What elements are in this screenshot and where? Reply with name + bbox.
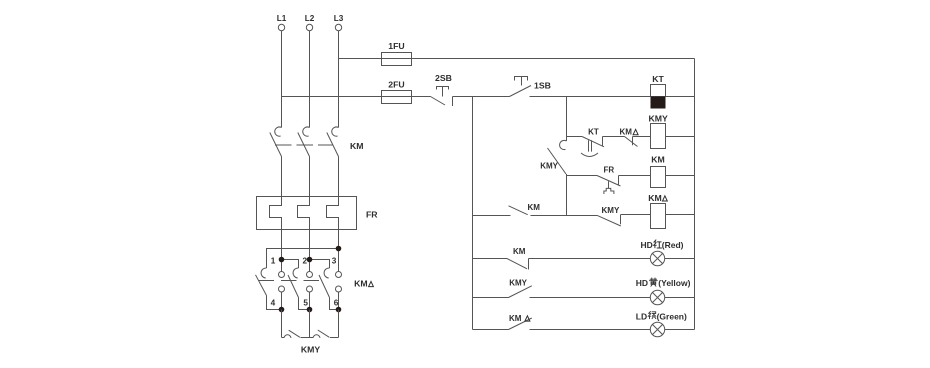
svg-text:LD: LD (636, 312, 647, 322)
svg-text:1: 1 (271, 256, 276, 265)
svg-text:1SB: 1SB (534, 81, 551, 91)
svg-text:(Yellow): (Yellow) (658, 278, 690, 288)
svg-text:KM: KM (651, 155, 665, 165)
svg-text:KT: KT (588, 128, 599, 137)
svg-text:3: 3 (332, 256, 337, 265)
svg-text:2FU: 2FU (388, 80, 404, 90)
svg-text:KMY: KMY (301, 345, 321, 355)
svg-text:HD: HD (641, 240, 653, 250)
svg-text:KM: KM (350, 141, 364, 151)
svg-text:KM: KM (509, 314, 522, 323)
svg-text:L1: L1 (277, 14, 287, 23)
svg-text:KM: KM (620, 128, 633, 137)
svg-text:KT: KT (652, 74, 664, 84)
svg-text:2SB: 2SB (435, 73, 452, 83)
svg-text:4: 4 (271, 299, 276, 308)
svg-text:6: 6 (334, 299, 339, 308)
svg-text:(Green): (Green) (657, 312, 687, 322)
svg-text:L2: L2 (305, 14, 315, 23)
svg-text:KM: KM (648, 193, 662, 203)
svg-text:KM: KM (354, 279, 368, 289)
svg-text:KMY: KMY (540, 162, 558, 171)
svg-text:KM: KM (528, 203, 541, 212)
svg-text:HD: HD (636, 278, 648, 288)
svg-text:KMY: KMY (509, 279, 527, 288)
svg-text:FR: FR (604, 166, 615, 175)
svg-text:FR: FR (366, 210, 378, 220)
svg-text:L3: L3 (334, 14, 344, 23)
svg-text:(Red): (Red) (662, 240, 684, 250)
svg-text:5: 5 (303, 299, 308, 308)
svg-text:KMY: KMY (649, 114, 669, 124)
svg-text:1FU: 1FU (388, 41, 404, 51)
svg-text:KMY: KMY (602, 206, 620, 215)
svg-text:2: 2 (302, 256, 307, 265)
svg-text:KM: KM (513, 247, 526, 256)
